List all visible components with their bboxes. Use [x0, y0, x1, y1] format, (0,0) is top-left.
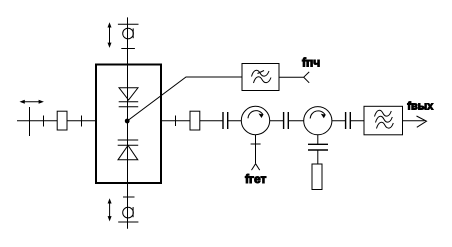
svg-text:fвых: fвых [407, 101, 434, 113]
svg-text:fпч: fпч [302, 56, 320, 70]
svg-text:fгет: fгет [245, 172, 267, 186]
